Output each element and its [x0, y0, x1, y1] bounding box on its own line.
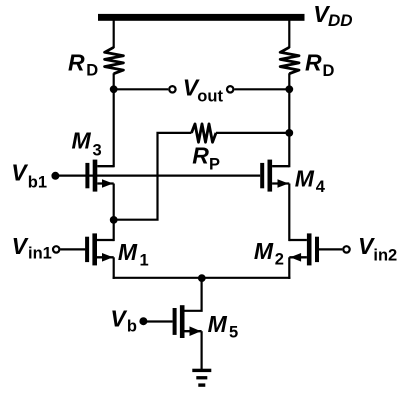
wire: M5 source to ground [201, 331, 203, 370]
svg-text:D: D [323, 62, 335, 80]
wire: Vb1 gate line [53, 175, 260, 177]
node: tail node [198, 274, 206, 282]
label Vb [110, 305, 137, 335]
label Vb1 [11, 160, 47, 192]
label M5 [208, 311, 239, 342]
terminal: Vout left open circle [169, 86, 175, 92]
terminal dot Vb1 [51, 172, 59, 180]
wire: M3 source to M1 drain [113, 184, 115, 242]
svg-text:M: M [208, 311, 228, 337]
svg-text:P: P [209, 156, 220, 174]
svg-text:out: out [197, 87, 223, 105]
terminal: Vin1 open circle [53, 246, 59, 252]
wire: left cascode node to RP (up-and-over) [114, 133, 192, 220]
resistor RP [192, 124, 217, 142]
wire: Vb to M5 gate [143, 320, 173, 322]
node: M3 source / M1 drain / RP junction [110, 216, 118, 224]
node: RP right junction [285, 129, 293, 137]
label M4 [295, 165, 326, 196]
svg-text:M: M [118, 239, 138, 265]
wire: tail node to M5 drain [185, 278, 202, 311]
svg-text:M: M [295, 165, 315, 191]
terminal: Vout right open circle [227, 86, 233, 92]
wire: Vout terminal to right node [234, 88, 289, 90]
wire: Vin1 to M1 gate [60, 248, 85, 250]
transistor M1 [85, 233, 114, 265]
svg-text:b: b [127, 318, 137, 336]
resistor RD (right) [280, 47, 299, 73]
wire: common source line [113, 277, 291, 279]
wire: M2 source to common line [288, 257, 290, 279]
svg-text:in1: in1 [28, 245, 52, 263]
svg-text:V: V [110, 305, 127, 331]
terminal: Vin2 open circle [343, 246, 349, 252]
svg-text:in2: in2 [373, 246, 397, 264]
wire: left node to Vout terminal [114, 88, 169, 90]
svg-text:DD: DD [328, 11, 353, 30]
svg-text:b1: b1 [28, 174, 47, 192]
label Vin2 [358, 233, 397, 265]
label M2 [254, 238, 284, 269]
svg-text:M: M [254, 238, 274, 264]
label Vin1 [12, 233, 52, 263]
label RP [192, 143, 220, 174]
svg-text:M: M [72, 128, 92, 154]
label M3 [72, 128, 102, 160]
label RD (right) [305, 49, 335, 80]
wire: M4 source to M2 drain [288, 184, 290, 242]
wire: RD left bottom to M3 drain [113, 73, 115, 167]
svg-text:R: R [68, 49, 85, 75]
node: left output node [110, 85, 118, 93]
label RD (left) [68, 49, 98, 79]
terminal dot Vb [139, 317, 147, 325]
wire: RP to right junction [216, 132, 289, 134]
wire: M2 gate to Vin2 [319, 248, 342, 250]
svg-text:3: 3 [93, 141, 102, 159]
resistor RD (left) [105, 47, 124, 73]
wire: M1 source to common line [113, 257, 115, 279]
transistor M3 [85, 160, 113, 192]
power rail VDD [98, 14, 305, 21]
label M1 [118, 239, 149, 269]
wire: VDD rail to RD left [113, 19, 115, 48]
svg-text:D: D [86, 62, 98, 80]
svg-text:5: 5 [229, 324, 238, 342]
ground [192, 369, 211, 387]
svg-text:2: 2 [275, 251, 284, 269]
node: right output node [285, 85, 293, 93]
transistor M4 [260, 160, 289, 192]
transistor M2 [289, 233, 319, 265]
wire: VDD rail to RD right [288, 19, 290, 48]
svg-text:R: R [305, 49, 322, 75]
wire: RD right bottom to M4 drain [288, 73, 290, 167]
svg-text:R: R [192, 143, 209, 169]
label Vout [183, 74, 224, 105]
transistor M5 [173, 305, 202, 338]
svg-text:1: 1 [140, 252, 149, 270]
svg-text:V: V [12, 233, 29, 259]
label VDD [313, 1, 352, 30]
svg-text:4: 4 [316, 178, 326, 196]
svg-text:V: V [11, 160, 28, 186]
